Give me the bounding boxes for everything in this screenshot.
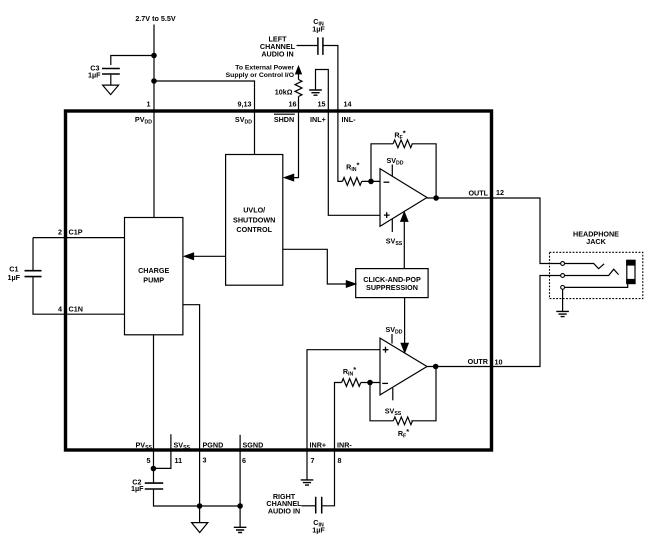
wire supply vertical to PVDD pin 1 into charge pump xyxy=(153,25,155,218)
svg-text:SHDN: SHDN xyxy=(274,115,294,124)
resistor RIN B xyxy=(342,379,361,387)
svg-text:C1P: C1P xyxy=(69,228,83,237)
wire SGND pin 6 to ground xyxy=(239,435,241,528)
svg-text:7: 7 xyxy=(311,456,315,465)
svg-text:1µF: 1µF xyxy=(88,70,101,79)
jack ring terminal circle xyxy=(561,274,565,278)
wire sleeve to ground xyxy=(562,289,564,311)
jack tip terminal circle xyxy=(561,262,565,266)
svg-text:1µF: 1µF xyxy=(131,484,144,493)
svg-text:5: 5 xyxy=(147,456,151,465)
svg-text:RIN*: RIN* xyxy=(346,161,359,173)
junction SGND/bus xyxy=(238,504,242,508)
svg-text:1µF: 1µF xyxy=(312,25,325,34)
svg-text:INR-: INR- xyxy=(337,440,352,449)
wire C1P pin 2 xyxy=(33,237,125,239)
wire C3 branch xyxy=(111,56,154,66)
wire UVLO to charge pump with left arrow xyxy=(191,255,226,257)
wire OUTR pin 10 to jack ring xyxy=(427,276,561,367)
svg-text:PUMP: PUMP xyxy=(143,276,164,285)
svg-text:14: 14 xyxy=(344,100,352,109)
headphone jack dashed box xyxy=(550,252,643,298)
capacitor CIN right 1uF xyxy=(316,497,322,514)
svg-text:OUTR: OUTR xyxy=(468,357,489,366)
svg-text:1: 1 xyxy=(147,100,151,109)
wire feedback loop B xyxy=(370,383,393,421)
op-amp U2 triangle xyxy=(380,338,427,395)
svg-text:AUDIO IN: AUDIO IN xyxy=(261,49,293,58)
resistor RIN A xyxy=(343,178,362,186)
wire C1 top xyxy=(32,238,34,271)
svg-text:RF*: RF* xyxy=(394,129,405,141)
svg-text:SVSS: SVSS xyxy=(386,237,403,248)
svg-text:1µF: 1µF xyxy=(7,273,20,282)
svg-text:To External Power: To External Power xyxy=(235,65,294,72)
junction PGND/bus xyxy=(197,504,201,508)
svg-text:3: 3 xyxy=(203,455,207,464)
capacitor C1 1uF xyxy=(25,271,42,277)
junction PVSS/SVSS xyxy=(151,466,155,470)
svg-text:SUPPRESSION: SUPPRESSION xyxy=(366,283,418,292)
ground earth below INL+ hook xyxy=(309,90,322,95)
svg-text:9,13: 9,13 xyxy=(238,100,252,109)
svg-text:RIN*: RIN* xyxy=(343,365,356,377)
svg-text:8: 8 xyxy=(338,456,342,465)
svg-text:SHUTDOWN: SHUTDOWN xyxy=(233,215,275,224)
wire RIN B to op-amp B minus input xyxy=(361,382,380,384)
junction op-amp B inverting node xyxy=(368,380,372,384)
svg-text:10kΩ: 10kΩ xyxy=(275,88,293,97)
svg-text:Supply or Control I/O: Supply or Control I/O xyxy=(226,72,294,79)
junction op-amp A inverting node xyxy=(369,179,373,183)
svg-text:PGND: PGND xyxy=(203,440,224,449)
ground earth below SGND xyxy=(234,527,247,532)
op-amp U2 SVDD stub xyxy=(391,334,393,344)
op-amp U1 triangle xyxy=(380,169,427,227)
wire SVDD branch to pin 9,13 into UVLO xyxy=(154,81,255,155)
svg-text:INL-: INL- xyxy=(342,115,357,124)
wire INR+ pin 7 to ground xyxy=(307,350,380,480)
junction op-amp B output xyxy=(434,364,438,368)
wire OUTL pin 12 to jack tip xyxy=(427,198,561,264)
block CLICK-AND-POP SUPPRESSION xyxy=(356,269,428,298)
svg-text:6: 6 xyxy=(242,456,246,465)
wire SVSS pin 11 hook xyxy=(154,434,171,468)
ground power triangle below C3 xyxy=(103,85,119,95)
junction op-amp A output xyxy=(434,196,438,200)
op-amp U2 SVSS stub xyxy=(392,388,394,400)
wire left audio to CIN xyxy=(297,45,318,47)
arrow up external power xyxy=(298,74,300,80)
junction supply/C3 xyxy=(152,53,156,57)
IC boundary box xyxy=(66,111,492,450)
svg-text:12: 12 xyxy=(496,188,504,197)
wire C3 to ground xyxy=(110,75,112,85)
svg-text:PVSS: PVSS xyxy=(135,440,152,451)
svg-text:OUTL: OUTL xyxy=(468,189,488,198)
wire RIN A to op-amp A minus input xyxy=(362,180,380,182)
wire RF B to output node xyxy=(411,367,436,421)
block UVLO/SHUTDOWN CONTROL xyxy=(226,155,283,286)
wire PGND pin 3 from charge pump to ground xyxy=(183,305,200,523)
svg-text:SVDD: SVDD xyxy=(235,115,252,126)
wire RF A to output node xyxy=(412,144,436,198)
wire INR- pin 8 to CIN right xyxy=(322,383,342,506)
wire UVLO to click-pop with right arrow xyxy=(283,249,348,284)
wire click-pop to op-amp A with up arrow xyxy=(403,221,405,268)
wire INL+ pin 15 hook to ground and to op-amp A xyxy=(316,70,381,216)
svg-text:2: 2 xyxy=(58,228,62,237)
wire C2 bottom to ground bus xyxy=(154,489,241,506)
svg-text:C1N: C1N xyxy=(69,304,83,313)
jack sleeve terminal circle xyxy=(561,286,565,290)
svg-text:SVSS: SVSS xyxy=(385,406,402,417)
wire click-pop to op-amp B with down arrow xyxy=(404,298,406,344)
svg-text:C1: C1 xyxy=(9,264,18,273)
block CHARGE PUMP xyxy=(125,218,183,335)
svg-text:2.7V to 5.5V: 2.7V to 5.5V xyxy=(135,14,176,23)
svg-text:4: 4 xyxy=(58,304,62,313)
svg-text:PVDD: PVDD xyxy=(135,115,152,126)
svg-text:JACK: JACK xyxy=(586,237,606,246)
wire PVSS pin 5 from charge pump xyxy=(153,335,155,483)
svg-text:INL+: INL+ xyxy=(310,115,326,124)
wire SHDN pin 16 to UVLO with arrow xyxy=(291,97,299,178)
wire jack sleeve xyxy=(565,284,628,288)
svg-text:UVLO/: UVLO/ xyxy=(243,206,265,215)
ground power triangle below PGND xyxy=(192,523,208,533)
svg-text:1µF: 1µF xyxy=(312,525,325,534)
wire right audio to CIN xyxy=(302,505,316,507)
jack plug symbol xyxy=(627,260,635,283)
svg-text:16: 16 xyxy=(289,100,297,109)
capacitor C3 xyxy=(102,69,120,75)
ground earth below INR+ xyxy=(301,480,314,485)
resistor RF B xyxy=(393,417,412,425)
svg-text:INR+: INR+ xyxy=(310,440,327,449)
svg-text:SGND: SGND xyxy=(243,440,264,449)
svg-text:10: 10 xyxy=(495,358,503,367)
svg-text:RF*: RF* xyxy=(398,427,409,439)
svg-text:CONTROL: CONTROL xyxy=(236,225,272,234)
wire feedback loop A xyxy=(371,144,393,182)
svg-text:SVDD: SVDD xyxy=(386,156,403,167)
svg-text:SVDD: SVDD xyxy=(385,325,402,336)
ground earth below jack xyxy=(556,311,569,316)
jack ring contact xyxy=(565,269,619,275)
capacitor CIN left 1uF xyxy=(318,37,323,55)
wire INL- pin 14 to RIN A xyxy=(323,46,342,182)
svg-text:15: 15 xyxy=(318,100,326,109)
svg-text:SVSS: SVSS xyxy=(174,440,191,451)
svg-text:AUDIO IN: AUDIO IN xyxy=(268,506,300,515)
op-amp U1 SVDD stub xyxy=(391,165,393,177)
wire C1 bottom to C1N pin 4 xyxy=(33,277,125,314)
jack tip contact xyxy=(565,264,605,269)
svg-text:11: 11 xyxy=(175,456,183,465)
op-amp U1 SVSS stub xyxy=(391,219,393,232)
capacitor C2 1uF xyxy=(145,483,163,489)
resistor R1 10k xyxy=(295,80,302,97)
junction supply/SVDD branch xyxy=(152,79,156,83)
svg-text:CHARGE: CHARGE xyxy=(138,266,169,275)
resistor RF A xyxy=(393,140,412,148)
